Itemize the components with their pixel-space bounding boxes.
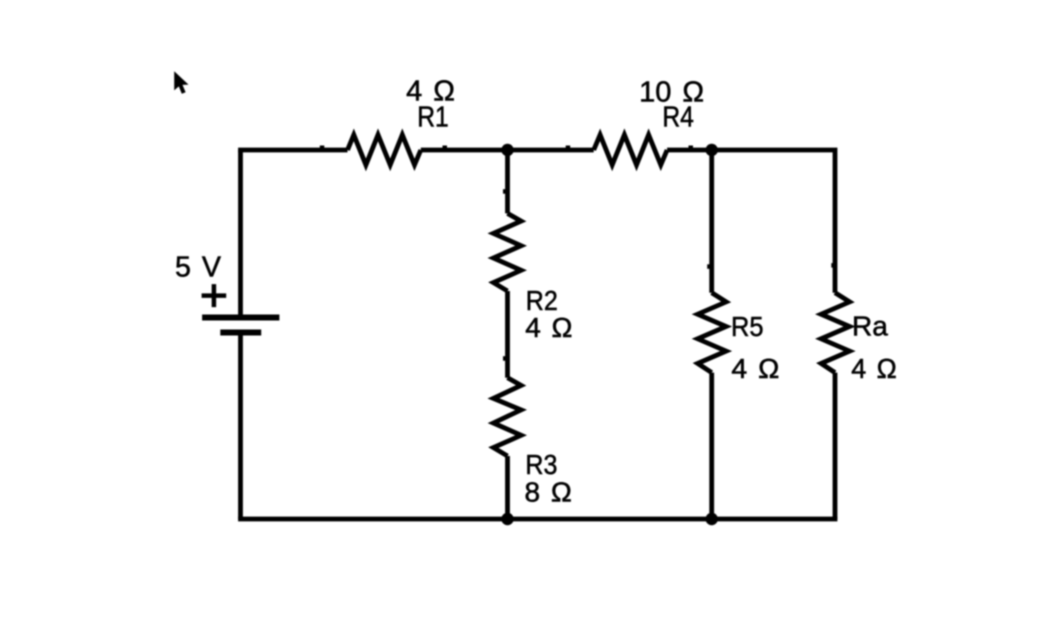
svg-text:4 Ω: 4 Ω [731, 353, 779, 384]
svg-text:4 Ω: 4 Ω [525, 312, 572, 343]
svg-text:5 V: 5 V [175, 251, 221, 283]
svg-text:R1: R1 [417, 102, 449, 134]
svg-text:R5: R5 [731, 311, 764, 342]
svg-text:4 Ω: 4 Ω [851, 353, 897, 384]
svg-text:8 Ω: 8 Ω [525, 476, 572, 507]
svg-text:R3: R3 [525, 449, 557, 480]
svg-text:R4: R4 [662, 102, 694, 134]
svg-text:Ra: Ra [852, 311, 888, 342]
